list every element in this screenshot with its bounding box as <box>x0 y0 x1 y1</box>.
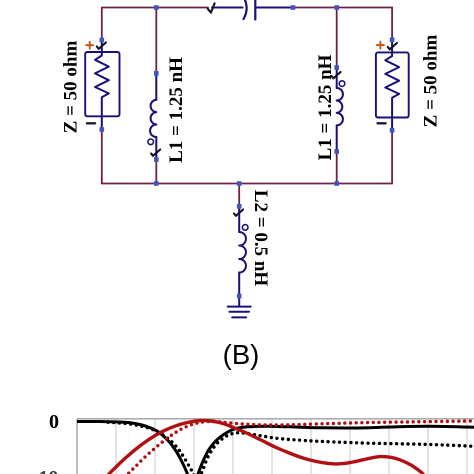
svg-text:L2 = 0.5 nH: L2 = 0.5 nH <box>250 190 271 287</box>
svg-text:(B): (B) <box>223 339 260 370</box>
wire right R2 bottom to bottom rail <box>391 130 393 183</box>
tick pin marker R1 <box>97 43 106 49</box>
inductor L1 left <box>148 73 156 159</box>
plus sign R2 <box>377 42 384 49</box>
curve black solid left branch <box>77 421 189 474</box>
svg-text:Z = 50 ohm: Z = 50 ohm <box>421 35 442 128</box>
wire left L1 branch from top rail <box>155 8 157 74</box>
svg-text:Z = 50 ohm: Z = 50 ohm <box>61 41 82 134</box>
wire right L1 branch from top rail <box>336 8 338 68</box>
resistor R2 (right, Z = 50 ohm) <box>376 40 409 131</box>
axis frame top <box>77 418 474 420</box>
wire right L1 bottom to bottom rail <box>336 152 338 184</box>
wire L2 branch from bottom rail <box>238 184 240 207</box>
svg-text:L1 = 1.25 nH: L1 = 1.25 nH <box>315 54 336 160</box>
node bottom rail / L1 left <box>154 181 159 186</box>
pin L2 bottom <box>237 294 242 299</box>
node top rail / C1 right pin <box>291 5 296 10</box>
svg-text:0: 0 <box>49 411 59 433</box>
pin L2 top <box>237 204 242 209</box>
svg-text:L1 = 1.25 nH: L1 = 1.25 nH <box>166 57 187 163</box>
inductor L1 right <box>337 68 345 152</box>
wire left vertical drop from top rail to R1 <box>101 8 103 41</box>
wire right vertical drop from top rail to R2 <box>391 8 393 40</box>
tick pin marker capacitor <box>208 3 215 12</box>
ground symbol <box>228 298 251 317</box>
wire bottom rail <box>102 183 392 185</box>
pin R1 top <box>100 38 105 43</box>
node bottom rail / L2 <box>237 181 242 186</box>
curve red dotted <box>126 421 474 474</box>
wire top rail left (maroon) <box>102 7 208 9</box>
pin R2 bottom <box>390 128 395 133</box>
inductor L2 (bottom centre) <box>239 208 248 298</box>
capacitor C1 (top centre) <box>212 0 291 20</box>
pin L1 right top <box>334 65 339 70</box>
node top rail / L1 left <box>154 5 159 10</box>
tick pin marker L1 right <box>332 72 341 78</box>
pin L1 left top <box>154 71 159 76</box>
wire left R1 bottom to bottom rail <box>101 130 103 184</box>
pin L1 right bottom <box>334 149 339 154</box>
wire top rail right (maroon) <box>295 7 392 9</box>
junction/pin squares <box>100 5 395 298</box>
pin L1 left bottom <box>154 157 159 162</box>
curve black solid right branch <box>197 426 474 474</box>
node top rail / L1 right <box>334 5 339 10</box>
tick pin marker L1 left <box>151 150 160 156</box>
curve black dotted right branch <box>200 433 474 474</box>
curve red solid <box>107 421 425 474</box>
node bottom rail / L1 right <box>334 181 339 186</box>
pin R2 top <box>390 37 395 42</box>
plus sign R1 <box>86 42 93 49</box>
tick pin marker R2 <box>388 43 397 49</box>
minus sign R1 <box>87 122 95 124</box>
wire left L1 bottom to bottom rail <box>155 160 157 184</box>
svg-text:-10: -10 <box>32 467 59 474</box>
minus sign R2 <box>378 122 386 124</box>
resistor R1 (left, Z = 50 ohm) <box>85 40 119 130</box>
gridlines <box>116 419 467 474</box>
axis frame left <box>76 419 78 474</box>
tick pin marker L2 <box>234 210 243 216</box>
curve black dotted left branch <box>108 422 195 474</box>
pin R1 bottom <box>100 127 105 132</box>
